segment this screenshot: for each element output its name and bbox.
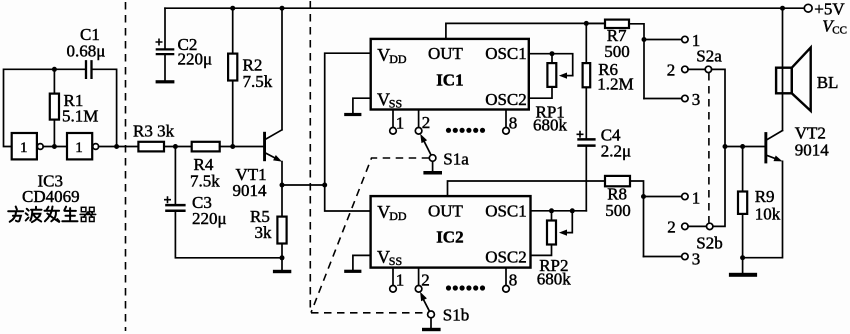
wire top-left feedback loop <box>4 69 117 146</box>
node junction VT1 collector rail <box>280 6 285 11</box>
svg-text:1: 1 <box>75 140 83 156</box>
svg-text:7.5k: 7.5k <box>243 72 273 91</box>
ground for R5 <box>273 258 291 273</box>
switch S2b contacts <box>667 188 723 268</box>
switch S1a <box>420 134 469 169</box>
wire R4 to VT1 base <box>220 146 263 148</box>
svg-text:3: 3 <box>692 90 701 109</box>
svg-text:1: 1 <box>20 140 28 156</box>
svg-text:8: 8 <box>509 113 518 132</box>
node junction R1 bottom <box>52 144 57 149</box>
ground for C2 <box>156 80 175 83</box>
capacitor C3 electrolytic <box>164 147 282 258</box>
wire IC1 OUT <box>446 23 605 39</box>
svg-text:SS: SS <box>389 97 402 111</box>
wire R3 to R4 <box>164 146 192 148</box>
node junction power column <box>322 183 327 188</box>
pins 3-7 ellipsis dots IC1 <box>446 128 485 133</box>
node junction R2 top rail <box>230 6 235 11</box>
wire gate2 output to R3 <box>99 146 139 148</box>
node junction R9 top <box>740 144 745 149</box>
svg-text:9014: 9014 <box>233 181 268 200</box>
dashed linkage S2a-S2b <box>708 73 710 223</box>
svg-text:3: 3 <box>692 249 701 268</box>
pins 3-7 ellipsis dots IC2 <box>446 285 485 290</box>
svg-text:5.1M: 5.1M <box>62 106 98 125</box>
switch S1b <box>420 292 469 325</box>
node junction RP2 top <box>549 208 554 213</box>
svg-text:S1a: S1a <box>443 150 469 169</box>
op-amp IC1 box <box>371 39 529 111</box>
wire S2b contact 1 <box>644 196 682 198</box>
pin 2 of IC2 <box>415 268 429 293</box>
svg-text:9014: 9014 <box>795 140 830 159</box>
resistor R1 <box>50 69 99 146</box>
svg-text:2: 2 <box>667 218 676 237</box>
svg-text:8: 8 <box>509 271 518 290</box>
svg-text:500: 500 <box>604 42 630 61</box>
label IC3 CD4069 <box>22 171 80 206</box>
wire rail to speaker <box>782 8 784 93</box>
svg-text:0.68μ: 0.68μ <box>67 42 106 61</box>
svg-text:7.5k: 7.5k <box>190 171 220 190</box>
node junction RP2 wiper <box>570 208 575 213</box>
svg-text:S2a: S2a <box>696 46 722 65</box>
svg-text:1.2M: 1.2M <box>597 74 633 93</box>
transistor VT1 9014 <box>233 8 283 216</box>
node junction C3 tap <box>173 144 178 149</box>
node junction R8 to S2b-1 <box>641 194 646 199</box>
svg-text:1: 1 <box>396 271 405 290</box>
wire VT2 base <box>725 146 764 148</box>
resistor R9 10k <box>738 147 781 258</box>
node junction pole column to base <box>723 144 728 149</box>
wire S2a contact 1 <box>644 39 682 41</box>
svg-text:OSC1: OSC1 <box>485 44 527 63</box>
svg-text:220μ: 220μ <box>178 49 213 68</box>
resistor R4 <box>190 142 220 191</box>
switch S2a contacts <box>667 31 723 109</box>
capacitor C1 <box>67 25 106 79</box>
pin 8 of IC2 <box>503 268 518 293</box>
wire S2b contact 3 <box>644 256 682 258</box>
svg-text:R3 3k: R3 3k <box>133 121 175 140</box>
svg-text:OUT: OUT <box>428 44 464 63</box>
svg-text:+5V: +5V <box>814 0 845 18</box>
svg-text:S1b: S1b <box>443 305 469 324</box>
resistor R6 1.2M <box>583 23 634 138</box>
ground for IC2 Vss <box>344 255 370 273</box>
node junction feedback tap <box>114 144 119 149</box>
svg-text:SS: SS <box>389 254 402 268</box>
svg-text:1: 1 <box>396 113 405 132</box>
node junction R2 bottom <box>230 144 235 149</box>
node junction R9 bottom <box>740 255 745 260</box>
svg-text:3k: 3k <box>255 223 273 242</box>
svg-text:500: 500 <box>605 201 631 220</box>
pin 1 of IC2 <box>390 268 405 293</box>
svg-text:IC2: IC2 <box>436 228 463 247</box>
ground for IC1 Vss <box>344 98 371 116</box>
node junction R7 to S2a-1 <box>642 37 647 42</box>
svg-text:CC: CC <box>832 24 847 36</box>
speaker BL <box>776 48 838 111</box>
resistor R5 <box>250 207 287 258</box>
wire S2b pole up <box>713 147 725 227</box>
svg-text:OSC1: OSC1 <box>485 201 527 220</box>
wire IC2 OUT to R8 <box>448 181 606 196</box>
wire IC power column <box>325 53 371 211</box>
resistor R8 500 <box>605 176 644 257</box>
svg-text:OSC2: OSC2 <box>485 90 527 109</box>
svg-text:DD: DD <box>389 209 407 223</box>
ground for S1b <box>422 318 441 331</box>
node junction RP1 top <box>550 51 555 56</box>
node junction R1 top <box>52 67 57 72</box>
svg-text:2: 2 <box>422 113 431 132</box>
capacitor C4 electrolytic <box>577 126 632 211</box>
ground for VT2 emitter <box>729 258 757 277</box>
resistor R3 <box>133 121 175 151</box>
node junction R5 bottom <box>280 255 285 260</box>
node junction OUT/R6/R7 <box>584 21 589 26</box>
wire IC1 OSC1 to RP1 <box>529 54 573 76</box>
wire gate1 to gate2 <box>43 146 67 148</box>
wire OSC1 row of IC2 <box>531 210 587 212</box>
pin 8 of IC1 <box>503 110 518 135</box>
svg-text:680k: 680k <box>537 269 572 288</box>
wire S2a pole down <box>712 69 725 146</box>
pin 1 of IC1 <box>390 110 405 135</box>
divider dashed line left <box>125 2 127 331</box>
wire +5V top rail <box>165 7 804 9</box>
potentiometer RP1 680k <box>529 54 573 135</box>
svg-text:2: 2 <box>421 270 430 289</box>
op-amp IC2 box <box>371 196 531 268</box>
node junction speaker rail <box>780 6 785 11</box>
svg-text:2.2μ: 2.2μ <box>601 141 631 160</box>
svg-text:DD: DD <box>389 52 407 66</box>
svg-text:R9: R9 <box>755 187 775 206</box>
resistor R7 500 <box>586 20 644 99</box>
svg-text:680k: 680k <box>533 116 568 135</box>
svg-text:IC1: IC1 <box>436 70 463 89</box>
wire S2a contact 3 <box>644 98 682 100</box>
divider dashed line right <box>309 1 311 312</box>
potentiometer RP2 680k <box>531 211 573 288</box>
terminal +5V Vcc <box>804 0 847 36</box>
node junction emitter row <box>280 183 285 188</box>
svg-text:BL: BL <box>817 73 839 92</box>
label 方波发生器 (hand-drawn glyphs) <box>8 207 96 223</box>
inverter gate 2 of IC3 <box>67 133 99 159</box>
capacitor C2 electrolytic <box>156 8 213 80</box>
ground for S1a <box>423 161 442 174</box>
svg-text:OSC2: OSC2 <box>485 247 527 266</box>
svg-text:10k: 10k <box>755 204 781 223</box>
svg-text:220μ: 220μ <box>192 209 227 228</box>
svg-text:2: 2 <box>667 61 676 80</box>
resistor R2 <box>228 8 273 146</box>
wire emitter row to IC power <box>282 184 325 186</box>
svg-text:1: 1 <box>692 188 701 207</box>
svg-text:OUT: OUT <box>428 201 464 220</box>
pin 2 of IC1 <box>415 110 430 135</box>
transistor VT2 9014 <box>743 93 830 257</box>
inverter gate 1 of IC3 <box>12 133 43 159</box>
svg-text:CD4069: CD4069 <box>22 187 80 206</box>
dashed linkage S1a-S1b <box>311 158 429 313</box>
